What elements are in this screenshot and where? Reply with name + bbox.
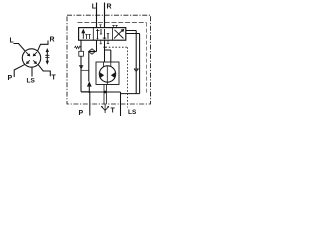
crossbar between relief and check lines: [81, 69, 89, 71]
gerotor port stubs into circle: [104, 62, 111, 67]
svg-text:P: P: [8, 75, 13, 82]
check symbol on relief line: [79, 65, 83, 67]
flow arrow inside circle lower-right: [33, 60, 36, 63]
wire T port drop: [120, 92, 122, 116]
check valve diamond: [89, 49, 96, 54]
wire right bottom connector: [121, 93, 140, 95]
blocked port stub above left of L line: [99, 25, 101, 28]
wire R port (left symbol): [38, 41, 48, 51]
svg-text:LS: LS: [27, 78, 36, 85]
gerotor housing square: [96, 62, 119, 85]
motor triangle left: [100, 72, 104, 78]
left section blocked ports: [85, 35, 90, 40]
flow arrow inside circle lower-left: [27, 60, 30, 63]
gerotor shaft through circle: [106, 67, 108, 85]
motor triangle right: [111, 72, 115, 78]
wire R line from top: [104, 3, 106, 28]
wire P port down: [89, 92, 91, 116]
steering unit circle U1: [22, 49, 40, 67]
flow arrow inside circle upper-right: [33, 52, 37, 56]
wire T port (left symbol): [38, 64, 50, 76]
middle section neutral lines: [98, 29, 109, 39]
pilot relief valve box: [79, 51, 84, 56]
flow arrows on right return lines: [134, 69, 138, 72]
wire L port (left symbol): [14, 44, 26, 52]
junction blob shaft/tank bus: [104, 91, 107, 94]
wire relief to tank bus: [81, 56, 89, 92]
relief/shock valve double arrow: [45, 48, 49, 65]
LS pilot dashed line: [106, 47, 128, 107]
pilot relief spring: [75, 46, 81, 48]
steering wheel input symbol: [101, 104, 108, 113]
flow arrow inside circle upper-left: [26, 52, 30, 56]
gerotor metering motor circle: [99, 66, 115, 82]
valve section divider right: [111, 28, 113, 41]
svg-text:R: R: [50, 37, 55, 44]
wire L line from top: [96, 3, 98, 28]
wire right return elbow 1: [126, 31, 136, 94]
junction dot LS tap: [104, 46, 106, 48]
wire metering branch B: [105, 50, 111, 62]
valve section divider left: [92, 28, 94, 41]
tank bus wire: [81, 91, 121, 93]
left section up arrow: [82, 32, 84, 39]
spool valve block V1: [79, 28, 126, 41]
enclosure chain-line box: [67, 15, 151, 104]
svg-text:R: R: [107, 4, 112, 11]
blocked port stubs below middle section: [100, 40, 110, 44]
svg-text:T: T: [111, 108, 116, 115]
inner enclosure dashed top: [78, 22, 147, 24]
inlet check valve triangle: [87, 81, 92, 86]
inner enclosure dashed right edge: [146, 23, 148, 95]
wire relief drop from valve left: [80, 40, 82, 51]
blocked ports above right section: [112, 26, 117, 29]
wire check to P port: [88, 87, 90, 92]
wire right return elbow 2: [126, 34, 140, 94]
junction dot P/bus: [88, 91, 90, 93]
wire P port (left symbol): [14, 64, 25, 77]
wire from valve to check diamond: [89, 40, 97, 82]
wire metering line A to gerotor: [104, 40, 106, 62]
svg-text:P: P: [79, 110, 84, 117]
drive shaft double line: [104, 85, 106, 104]
svg-text:LS: LS: [128, 109, 137, 116]
svg-text:T: T: [52, 75, 57, 82]
wire LS port (left symbol): [31, 67, 33, 77]
right section crossed arrows: [114, 30, 124, 39]
